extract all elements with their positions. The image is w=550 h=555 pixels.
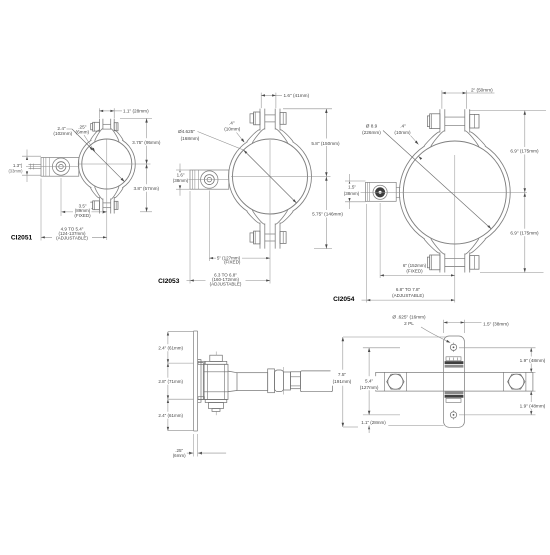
svg-text:2 PL: 2 PL [404,321,414,326]
svg-text:(FIXED): (FIXED) [406,268,423,273]
svg-text:5.75" (146mm): 5.75" (146mm) [312,212,343,217]
svg-text:6.8" TO 7.8": 6.8" TO 7.8" [396,287,421,292]
svg-text:2.4" (61mm): 2.4" (61mm) [158,346,183,351]
svg-text:CI2054: CI2054 [333,296,355,303]
svg-text:1.9" (48mm): 1.9" (48mm) [520,403,546,408]
svg-text:(191mm): (191mm) [333,379,352,384]
svg-text:3.8" (57mm): 3.8" (57mm) [133,186,159,191]
svg-text:5.8" (150mm): 5.8" (150mm) [311,141,340,146]
svg-text:5.4": 5.4" [365,378,374,383]
svg-text:.4": .4" [400,123,406,128]
svg-text:CI2053: CI2053 [158,278,180,285]
svg-text:6.9" (175mm): 6.9" (175mm) [510,149,539,154]
svg-text:1.6": 1.6" [177,173,185,178]
svg-text:CI2051: CI2051 [11,235,33,242]
svg-text:1.5": 1.5" [348,184,356,189]
svg-text:(FIXED): (FIXED) [224,259,241,264]
svg-text:(226mm): (226mm) [362,130,381,135]
svg-text:3.75" (95mm): 3.75" (95mm) [132,140,161,145]
svg-text:Ø 8.9: Ø 8.9 [366,123,378,128]
svg-text:.4": .4" [229,121,235,126]
svg-text:(102mm): (102mm) [53,131,72,136]
svg-text:(168mm): (168mm) [181,136,200,141]
svg-text:2.4" (61mm): 2.4" (61mm) [158,413,183,418]
svg-text:(38mm): (38mm) [173,178,189,183]
svg-text:(6mm): (6mm) [173,453,186,458]
svg-text:(10mm): (10mm) [224,126,241,131]
svg-text:1.1" (28mm): 1.1" (28mm) [361,420,386,425]
svg-text:Ø4.625": Ø4.625" [178,129,195,134]
svg-text:1.5" (38mm): 1.5" (38mm) [483,321,509,326]
svg-text:(10mm): (10mm) [394,130,411,135]
svg-text:2" (50mm): 2" (50mm) [471,88,493,93]
svg-text:1.9" (48mm): 1.9" (48mm) [520,358,546,363]
svg-text:1.6" (41mm): 1.6" (41mm) [284,93,310,98]
svg-text:1.1" (28mm): 1.1" (28mm) [123,108,149,113]
svg-text:(127mm): (127mm) [360,385,379,390]
svg-text:(38mm): (38mm) [344,191,360,196]
svg-text:Ø .625" (16mm): Ø .625" (16mm) [392,315,426,320]
svg-text:6" (152mm): 6" (152mm) [403,263,427,268]
svg-text:(ADJUSTABLE): (ADJUSTABLE) [210,281,242,286]
svg-text:(FIXED): (FIXED) [74,213,91,218]
svg-text:(ADJUSTABLE): (ADJUSTABLE) [56,235,88,240]
svg-text:2.8" (71mm): 2.8" (71mm) [158,379,183,384]
svg-text:(33mm): (33mm) [8,169,23,174]
svg-text:(6mm): (6mm) [76,129,90,134]
svg-text:(ADJUSTABLE): (ADJUSTABLE) [392,293,424,298]
svg-text:6.9" (175mm): 6.9" (175mm) [510,230,539,235]
svg-text:1.3"(: 1.3"( [13,163,23,168]
svg-text:7.5": 7.5" [338,372,347,377]
